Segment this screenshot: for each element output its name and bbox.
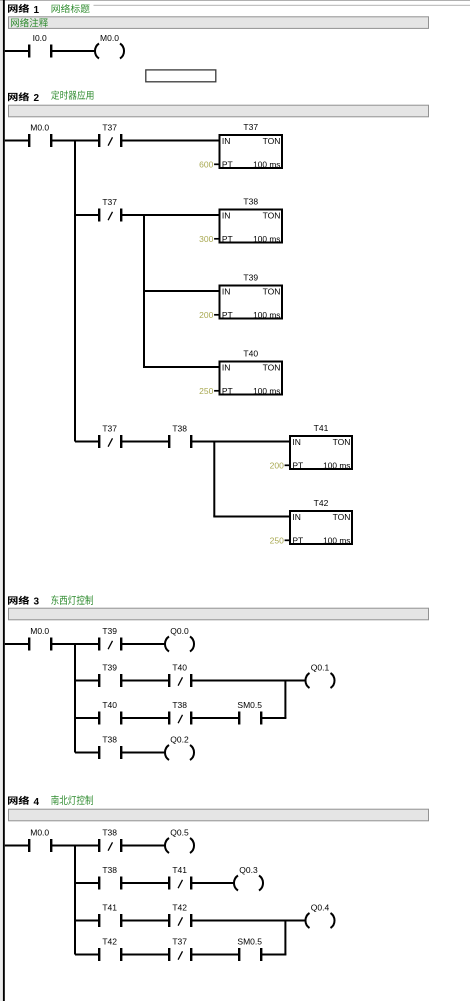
- svg-text:Q0.4: Q0.4: [311, 903, 330, 913]
- wire: branch to T41 contact: [75, 920, 98, 922]
- wire: T40 contact to coil Q0.1 (passes merge x285): [192, 680, 306, 682]
- svg-text:T38: T38: [102, 865, 117, 875]
- svg-text:T41: T41: [314, 423, 329, 433]
- svg-text:T37: T37: [172, 937, 187, 947]
- network 4 title: 南北灯控制: [51, 795, 93, 805]
- wire: T39 contact to coil Q0.0: [122, 643, 166, 645]
- network 1 separator line: [94, 5, 470, 6]
- wire: T40 to T38 contact: [122, 717, 168, 719]
- wire: branch to T38 contact: [75, 752, 98, 754]
- wire: rail to M0.0: [5, 845, 29, 847]
- svg-text:PT: PT: [222, 310, 233, 320]
- coil Q0.2: [165, 735, 194, 761]
- svg-text:100 ms: 100 ms: [323, 461, 350, 471]
- network comment bar: [9, 608, 429, 620]
- wire: branch vertical at x75 (rows 1 to 4): [74, 644, 76, 753]
- svg-text:M0.0: M0.0: [30, 123, 49, 133]
- wire: merge vertical at x285 (row 3 up to row 2): [284, 681, 286, 719]
- contact T38: [98, 735, 122, 760]
- svg-text:T42: T42: [314, 498, 329, 508]
- svg-text:TON: TON: [263, 287, 281, 297]
- wire: T38 contact to coil Q0.2: [122, 752, 166, 754]
- contact T38 (NC): [168, 700, 192, 725]
- contact I0.0: [28, 33, 52, 58]
- network 1 title: 网络标题: [52, 4, 90, 13]
- contact T37 (NC): [98, 197, 122, 222]
- wire: I0.0 to coil M0.0: [52, 50, 96, 52]
- wire: T38 contact to coil Q0.5: [122, 845, 166, 847]
- svg-text:T38: T38: [172, 424, 187, 434]
- svg-text:200: 200: [199, 310, 213, 320]
- timer T37 (TON): [220, 122, 283, 169]
- pin PT stub of T41: [285, 464, 290, 466]
- wire: M0.0 to T38 contact (passes branch node): [52, 845, 98, 847]
- svg-text:T38: T38: [243, 197, 258, 207]
- svg-text:TON: TON: [263, 136, 281, 146]
- wire: branch vertical at x75 (rows A to E): [74, 141, 76, 442]
- wire: M0.0 to T37 contact (passes branch node): [52, 140, 98, 142]
- svg-text:1: 1: [34, 5, 40, 16]
- svg-text:T38: T38: [102, 828, 117, 838]
- network 3 title: 东西灯控制: [51, 595, 93, 605]
- wire: T38 to T41 contact: [122, 882, 168, 884]
- svg-text:200: 200: [270, 460, 284, 470]
- contact M0.0: [28, 626, 52, 651]
- coil M0.0: [95, 33, 124, 59]
- wire: branch to T42 contact: [75, 954, 98, 956]
- svg-text:T39: T39: [102, 663, 117, 673]
- svg-text:M0.0: M0.0: [100, 33, 119, 43]
- contact SM0.5: [237, 700, 262, 725]
- wire: rail to I0.0: [5, 50, 29, 52]
- wire: T42 contact to coil Q0.4 (passes merge x285): [192, 920, 306, 922]
- timer T39 (TON): [220, 273, 283, 320]
- svg-text:I0.0: I0.0: [33, 33, 47, 43]
- wire: T42 to T37 contact: [122, 954, 168, 956]
- wire: branch to T38 contact: [75, 882, 98, 884]
- svg-text:TON: TON: [333, 437, 351, 447]
- svg-text:T37: T37: [243, 122, 258, 132]
- pin PT stub of T37: [214, 163, 219, 165]
- contact T41: [98, 903, 122, 928]
- wire: T41 contact to coil Q0.3: [192, 882, 235, 884]
- coil Q0.0: [165, 626, 194, 652]
- contact T39: [98, 663, 122, 688]
- network 3 header: 网络 3: [8, 596, 40, 608]
- svg-text:PT: PT: [292, 461, 303, 471]
- coil Q0.4: [305, 903, 334, 929]
- coil Q0.5: [165, 828, 194, 854]
- svg-text:T39: T39: [102, 626, 117, 636]
- wire: T41 to T42 contact: [122, 920, 168, 922]
- svg-text:PT: PT: [222, 160, 233, 170]
- wire: branch to T39 contact: [75, 680, 98, 682]
- pane top border line: [0, 0, 470, 2]
- selection cursor box (empty element): [146, 70, 216, 82]
- pin PT stub of T40: [214, 390, 219, 392]
- wire: junction vertical at x214 (rows E to F): [213, 442, 215, 517]
- wire: merge vertical at x285 (row 4 up to row 3): [284, 921, 286, 955]
- contact T42: [98, 937, 122, 962]
- pin PT stub of T42: [285, 539, 290, 541]
- network comment bar: [9, 809, 429, 821]
- svg-text:PT: PT: [292, 536, 303, 546]
- contact T38 (NC): [98, 828, 122, 853]
- left power rail: [3, 0, 5, 1001]
- svg-text:T40: T40: [102, 700, 117, 710]
- wire: junction to timer T42 IN: [213, 516, 290, 518]
- svg-text:100 ms: 100 ms: [323, 536, 350, 546]
- wire: junction to timer T39 IN: [143, 290, 220, 292]
- svg-text:3: 3: [34, 597, 40, 608]
- contact T42 (NC): [168, 903, 192, 928]
- svg-text:IN: IN: [292, 512, 301, 522]
- svg-text:Q0.3: Q0.3: [239, 865, 258, 875]
- svg-text:2: 2: [34, 93, 40, 104]
- timer T40 (TON): [220, 349, 283, 396]
- network 2 header: 网络 2: [8, 92, 40, 104]
- svg-text:PT: PT: [222, 234, 233, 244]
- contact T40: [98, 700, 122, 725]
- svg-text:TON: TON: [333, 512, 351, 522]
- wire: T37 to SM0.5 contact: [192, 954, 238, 956]
- svg-text:T40: T40: [243, 349, 258, 359]
- contact T40 (NC): [168, 663, 192, 688]
- editor left margin strip: [0, 0, 3, 1001]
- network 1 header: 网络 1: [8, 4, 40, 16]
- svg-text:Q0.0: Q0.0: [170, 626, 189, 636]
- svg-text:IN: IN: [292, 437, 301, 447]
- svg-text:T42: T42: [172, 903, 187, 913]
- pin PT stub of T39: [214, 314, 219, 316]
- wire: T37 contact to timer T37 IN: [122, 140, 220, 142]
- wire: T37 to T38 contact: [122, 441, 168, 443]
- wire: T37 contact to timer T38 IN (passes junction x144): [122, 214, 220, 216]
- wire: T38 contact to timer T41 IN (passes junction x214): [192, 441, 290, 443]
- network 4 header: 网络 4: [8, 796, 40, 808]
- svg-text:TON: TON: [263, 211, 281, 221]
- svg-text:SM0.5: SM0.5: [237, 937, 262, 947]
- wire: SM0.5 to merge vertical: [262, 954, 286, 956]
- pin PT stub of T38: [214, 238, 219, 240]
- svg-text:PT: PT: [222, 386, 233, 396]
- svg-text:IN: IN: [222, 363, 231, 373]
- svg-text:300: 300: [199, 234, 213, 244]
- contact M0.0: [28, 123, 52, 148]
- svg-text:Q0.1: Q0.1: [311, 663, 330, 673]
- svg-text:T37: T37: [102, 197, 117, 207]
- wire: junction to timer T40 IN: [143, 366, 220, 368]
- svg-text:Q0.5: Q0.5: [170, 828, 189, 838]
- svg-text:T37: T37: [102, 424, 117, 434]
- contact T41 (NC): [168, 865, 192, 890]
- svg-text:4: 4: [34, 797, 40, 808]
- contact T37 (NC): [98, 424, 122, 449]
- wire: branch to T37 contact row E: [75, 441, 98, 443]
- svg-text:100 ms: 100 ms: [253, 310, 280, 320]
- wire: branch vertical at x75 (rows 1 to 4): [74, 846, 76, 955]
- svg-text:100 ms: 100 ms: [253, 386, 280, 396]
- network 2 title: 定时器应用: [51, 90, 93, 99]
- network comment bar: [9, 105, 429, 117]
- timer T38 (TON): [220, 197, 283, 244]
- svg-text:T42: T42: [102, 937, 117, 947]
- svg-text:250: 250: [270, 535, 284, 545]
- wire: junction vertical at x144 (rows B to D): [143, 215, 145, 367]
- wire: SM0.5 to merge vertical: [262, 717, 286, 719]
- svg-text:IN: IN: [222, 287, 231, 297]
- contact T38: [98, 865, 122, 890]
- svg-text:M0.0: M0.0: [30, 828, 49, 838]
- svg-text:T40: T40: [172, 663, 187, 673]
- svg-text:SM0.5: SM0.5: [237, 700, 262, 710]
- svg-text:T38: T38: [172, 700, 187, 710]
- coil Q0.1: [305, 663, 334, 689]
- contact T37 (NC): [98, 123, 122, 148]
- wire: rail to M0.0: [5, 140, 29, 142]
- wire: M0.0 to T39 contact (passes branch node): [52, 643, 98, 645]
- svg-text:T39: T39: [243, 273, 258, 283]
- wire: T38 to SM0.5 contact: [192, 717, 238, 719]
- contact SM0.5: [237, 937, 262, 962]
- svg-text:T41: T41: [172, 865, 187, 875]
- wire: branch to T37 contact row B: [75, 214, 98, 216]
- contact M0.0: [28, 828, 52, 853]
- wire: T39 to T40 contact: [122, 680, 168, 682]
- svg-text:Q0.2: Q0.2: [170, 735, 189, 745]
- wire: branch to T40 contact: [75, 717, 98, 719]
- coil Q0.3: [234, 865, 263, 891]
- contact T37 (NC): [168, 937, 192, 962]
- svg-text:600: 600: [199, 159, 213, 169]
- svg-text:T38: T38: [102, 735, 117, 745]
- contact T39 (NC): [98, 626, 122, 651]
- timer T42 (TON): [290, 498, 352, 545]
- svg-text:TON: TON: [263, 363, 281, 373]
- svg-text:T37: T37: [102, 123, 117, 133]
- svg-text:T41: T41: [102, 903, 117, 913]
- svg-text:M0.0: M0.0: [30, 626, 49, 636]
- wire: rail to M0.0: [5, 643, 29, 645]
- svg-text:IN: IN: [222, 136, 231, 146]
- svg-text:100 ms: 100 ms: [253, 234, 280, 244]
- network comment bar: [9, 17, 429, 29]
- svg-text:IN: IN: [222, 211, 231, 221]
- timer T41 (TON): [290, 423, 352, 470]
- svg-text:100 ms: 100 ms: [253, 160, 280, 170]
- svg-text:250: 250: [199, 386, 213, 396]
- contact T38: [168, 424, 192, 449]
